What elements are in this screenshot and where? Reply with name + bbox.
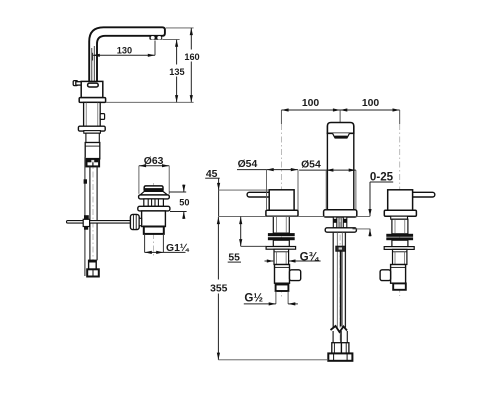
- dim G1 1/4 line: [145, 251, 186, 253]
- left black band: [268, 233, 295, 236]
- dim G1/2 leader: [244, 303, 276, 305]
- dim 135 line: [176, 40, 178, 103]
- handle lever (side): [73, 81, 77, 86]
- hose end fitting: [89, 260, 97, 269]
- dim 0-25 vertical + arrows: [369, 182, 371, 216]
- dim Ø54 left line: [267, 169, 299, 171]
- centerline right handle: [399, 124, 401, 296]
- svg-text:50: 50: [179, 197, 189, 207]
- ext handle top: [219, 189, 269, 191]
- mounting washer bar: [78, 126, 105, 131]
- deck line (left view): [106, 101, 194, 103]
- centerline spout: [339, 122, 341, 360]
- connector block: [85, 143, 100, 159]
- spout washer bar: [325, 228, 356, 232]
- ext spout top to 160: [166, 27, 194, 29]
- hose end cap: [328, 353, 352, 360]
- left locknut bar: [266, 247, 296, 250]
- pop-up tailpipe lines: [144, 234, 146, 253]
- Ø63 extensions: [138, 166, 140, 194]
- left stem mid: [273, 240, 289, 246]
- G1/2 extension lines: [275, 291, 277, 304]
- pop-up rod knob: [130, 214, 139, 229]
- left valve side port: [290, 270, 301, 281]
- pop-up centerline: [153, 183, 155, 256]
- spout L-tube outline: [89, 27, 165, 81]
- right valve side port: [380, 270, 391, 281]
- deck line (front): [218, 215, 370, 217]
- svg-text:G¾: G¾: [300, 251, 320, 264]
- dim 0-25 underline: [370, 181, 393, 183]
- pop-up pull rod (vertical): [84, 157, 86, 276]
- max deck thickness line: [353, 228, 371, 230]
- dim 45 underline: [205, 177, 220, 179]
- left stem lower: [274, 249, 289, 264]
- spout mounting bolts: [333, 217, 337, 228]
- rod junction block: [83, 219, 89, 226]
- left valve body: [275, 265, 290, 284]
- svg-text:G½: G½: [244, 291, 263, 304]
- left outlet nut: [276, 285, 289, 292]
- svg-text:130: 130: [117, 46, 132, 56]
- dim 355 line: [217, 225, 219, 360]
- pop-up bottom connector: [144, 227, 164, 234]
- dim 100/100 line: [281, 109, 399, 111]
- svg-text:Ø54: Ø54: [301, 160, 321, 171]
- right black band: [386, 234, 413, 237]
- tube under washer: [86, 133, 99, 142]
- right outlet nut: [393, 283, 406, 289]
- dim 50 arrows: [183, 185, 185, 193]
- right valve body: [391, 265, 406, 284]
- dim 55 line: [240, 217, 242, 247]
- dim Ø63 line: [139, 165, 169, 167]
- pop-up threaded neck: [144, 199, 164, 206]
- hose end nut: [87, 269, 99, 276]
- pop-up body: [142, 211, 166, 227]
- centerline left handle: [280, 124, 282, 298]
- right handle lever: [411, 192, 435, 197]
- spout escutcheon: [324, 210, 357, 217]
- pop-up lower ring: [138, 206, 170, 211]
- svg-text:355: 355: [210, 284, 228, 295]
- svg-text:135: 135: [169, 67, 184, 77]
- centerline faucet axis: [92, 84, 94, 278]
- right stem upper: [392, 219, 408, 234]
- hose break symbol: [331, 326, 348, 332]
- spout cap front: [327, 123, 353, 134]
- svg-text:100: 100: [302, 98, 320, 109]
- hose connector under washer: [336, 246, 346, 251]
- flexible hose (left view): [89, 166, 91, 260]
- dim Ø54 left underline: [237, 169, 267, 171]
- dim 55 bottom extension: [241, 245, 266, 247]
- knob step: [139, 218, 141, 225]
- hose below break: [332, 331, 334, 343]
- body slot: [88, 83, 99, 87]
- dim Ø54 center underline: [299, 169, 330, 171]
- dim Ø54 center line: [326, 169, 356, 171]
- spout aerator front: [333, 133, 350, 136]
- dim 130 right arrow: [148, 54, 155, 57]
- Ø54 left extensions: [266, 170, 268, 210]
- dim G3/4 leader: [288, 260, 320, 262]
- hose end upper nut: [332, 343, 349, 354]
- hose nut top squares: [87, 159, 91, 162]
- aerator outlet: [149, 36, 162, 40]
- left handle body: [269, 190, 294, 211]
- dim 130 left arrow: [93, 54, 100, 57]
- right handle escutcheon: [384, 210, 416, 216]
- right stem mid: [392, 240, 408, 246]
- dim 160 text: [184, 50, 199, 62]
- pop-up cap: [144, 186, 163, 192]
- side tab on shank: [100, 114, 104, 120]
- dim 355 text: [210, 280, 227, 294]
- dim 130 line: [93, 54, 155, 56]
- rod clamp square: [84, 179, 87, 183]
- dim 50 bottom extension: [170, 211, 187, 213]
- left stem upper: [273, 216, 289, 233]
- step under washer: [84, 131, 101, 134]
- left handle escutcheon: [266, 210, 298, 216]
- svg-text:160: 160: [184, 52, 199, 62]
- left handle lever: [247, 192, 271, 197]
- right neck: [391, 216, 408, 219]
- dim 50 top extension: [169, 191, 186, 193]
- dim 135 text: [170, 65, 185, 77]
- dim 160 line: [190, 28, 192, 102]
- right handle body: [388, 190, 413, 211]
- body shank below deck: [84, 102, 101, 126]
- pop-up upper ring: [139, 195, 170, 199]
- spout inner tube lines: [91, 48, 93, 81]
- pop-up cone: [140, 191, 167, 195]
- dim 45 arrow down: [218, 178, 220, 190]
- pop-up horizontal rod: [67, 221, 132, 224]
- Ø54 center extensions: [325, 170, 327, 209]
- escutcheon base (side): [79, 98, 105, 103]
- right stem lower: [393, 249, 407, 264]
- hose nut: [87, 159, 100, 167]
- spout body front: [327, 133, 353, 209]
- right locknut bar: [384, 247, 414, 250]
- dim 130 right extension: [154, 41, 156, 56]
- svg-text:100: 100: [362, 98, 380, 109]
- dim 355 bottom extension: [218, 359, 328, 361]
- svg-text:Ø54: Ø54: [238, 159, 258, 170]
- 100 dim extension stubs: [280, 110, 282, 124]
- ext aerator to 135: [162, 39, 179, 41]
- dim 45/355 up arrow at deck: [217, 217, 219, 225]
- spout hose lines: [332, 232, 334, 327]
- mixer body (side): [81, 81, 103, 97]
- svg-text:G1¼: G1¼: [166, 243, 190, 254]
